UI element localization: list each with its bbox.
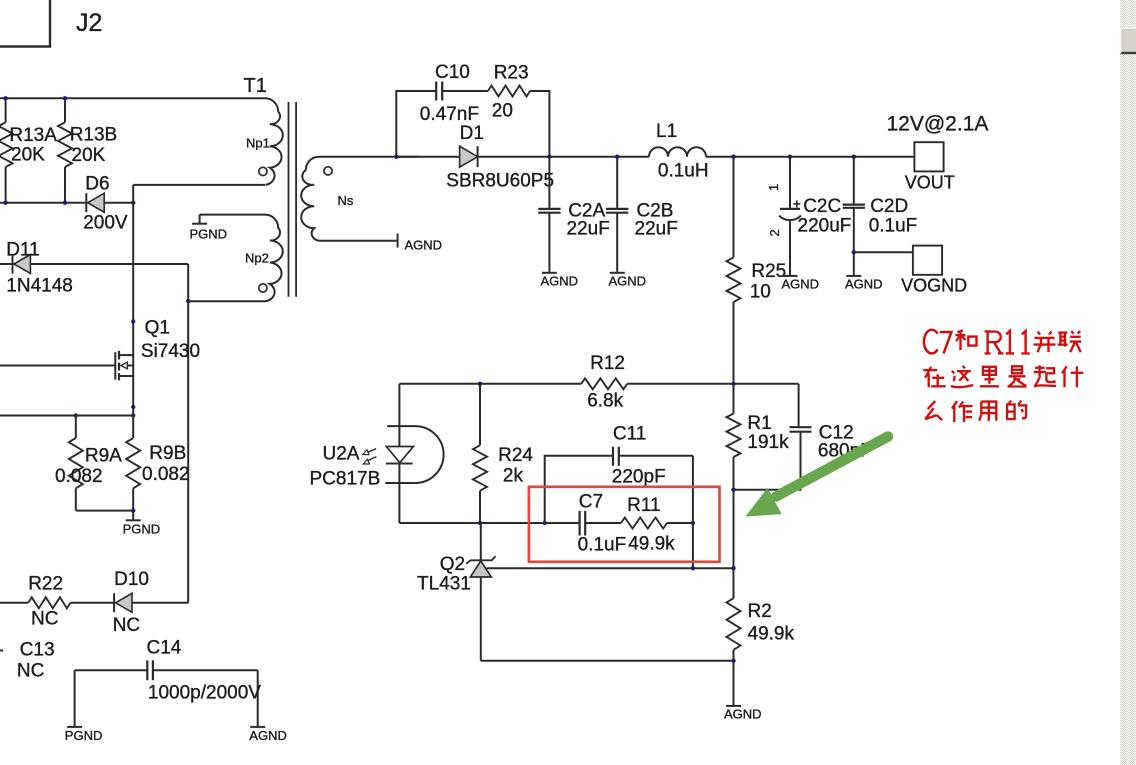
svg-text:220pF: 220pF (612, 467, 666, 488)
svg-text:Ns: Ns (338, 193, 354, 208)
svg-text:191k: 191k (747, 432, 789, 453)
svg-text:2: 2 (767, 229, 782, 236)
svg-text:R13A: R13A (9, 125, 57, 146)
svg-text:C11: C11 (613, 424, 646, 445)
svg-text:0.082: 0.082 (142, 464, 190, 485)
svg-text:TL431: TL431 (417, 574, 471, 595)
svg-text:Q2: Q2 (440, 554, 465, 575)
svg-text:0.1uF: 0.1uF (578, 535, 627, 556)
svg-text:C2D: C2D (870, 196, 908, 217)
svg-text:T1: T1 (244, 75, 267, 97)
svg-text:PC817B: PC817B (310, 469, 381, 490)
svg-text:PGND: PGND (123, 522, 161, 537)
svg-text:0.1uH: 0.1uH (658, 161, 709, 182)
svg-text:49.9k: 49.9k (628, 534, 675, 555)
svg-text:R9A: R9A (85, 446, 122, 467)
svg-text:AGND: AGND (249, 728, 287, 743)
svg-text:C13: C13 (20, 640, 55, 661)
svg-text:1: 1 (766, 184, 781, 191)
svg-text:200V: 200V (83, 213, 128, 234)
svg-text:VOGND: VOGND (901, 276, 967, 296)
svg-text:C10: C10 (435, 62, 470, 83)
svg-text:R24: R24 (498, 445, 533, 466)
svg-text:6.8k: 6.8k (587, 391, 623, 412)
svg-text:D11: D11 (6, 240, 39, 261)
svg-text:20K: 20K (11, 145, 45, 166)
svg-text:D1: D1 (460, 123, 484, 144)
svg-text:U2A: U2A (323, 444, 360, 465)
svg-text:L1: L1 (656, 121, 677, 142)
svg-text:20K: 20K (72, 145, 106, 166)
svg-text:PGND: PGND (65, 728, 103, 743)
svg-text:NC: NC (31, 609, 58, 630)
svg-text:D6: D6 (85, 174, 109, 195)
svg-text:NC: NC (113, 615, 140, 636)
svg-text:22uF: 22uF (635, 219, 678, 240)
svg-text:1N4148: 1N4148 (6, 276, 73, 297)
svg-text:10: 10 (750, 282, 771, 303)
svg-text:D10: D10 (114, 569, 149, 590)
svg-text:R23: R23 (494, 63, 529, 84)
svg-text:0.47nF: 0.47nF (420, 104, 479, 125)
svg-text:PGND: PGND (190, 227, 228, 242)
svg-text:0.1uF: 0.1uF (869, 216, 918, 237)
svg-text:20: 20 (492, 101, 513, 122)
svg-text:Si7430: Si7430 (141, 341, 200, 362)
svg-text:AGND: AGND (609, 273, 647, 288)
svg-text:12V@2.1A: 12V@2.1A (887, 113, 989, 136)
svg-text:R9B: R9B (149, 443, 186, 464)
svg-text:0.082: 0.082 (55, 466, 103, 487)
svg-text:Np1: Np1 (246, 136, 270, 151)
svg-text:R12: R12 (590, 353, 625, 374)
svg-text:AGND: AGND (541, 273, 579, 288)
svg-text:C14: C14 (147, 638, 182, 659)
svg-text:R2: R2 (748, 601, 772, 622)
svg-text:22uF: 22uF (567, 219, 610, 240)
svg-text:C2C: C2C (803, 196, 841, 217)
svg-text:R22: R22 (28, 574, 63, 595)
svg-text:AGND: AGND (405, 238, 443, 253)
svg-text:49.9k: 49.9k (748, 624, 795, 645)
svg-text:Q1: Q1 (145, 318, 170, 339)
svg-text:AGND: AGND (724, 706, 762, 721)
svg-text:VOUT: VOUT (905, 173, 955, 193)
svg-text:SBR8U60P5: SBR8U60P5 (446, 171, 554, 192)
svg-text:R1: R1 (747, 413, 771, 434)
svg-text:2k: 2k (503, 466, 524, 487)
svg-text:Np2: Np2 (245, 251, 269, 266)
svg-text:J2: J2 (76, 9, 102, 37)
svg-text:220uF: 220uF (798, 216, 852, 237)
svg-text:R11: R11 (627, 495, 660, 516)
svg-text:AGND: AGND (845, 276, 883, 291)
svg-text:C7: C7 (579, 492, 603, 513)
svg-text:R13B: R13B (70, 125, 118, 146)
svg-text:1000p/2000V: 1000p/2000V (148, 683, 261, 704)
svg-text:AGND: AGND (782, 276, 820, 291)
svg-text:NC: NC (17, 661, 44, 682)
